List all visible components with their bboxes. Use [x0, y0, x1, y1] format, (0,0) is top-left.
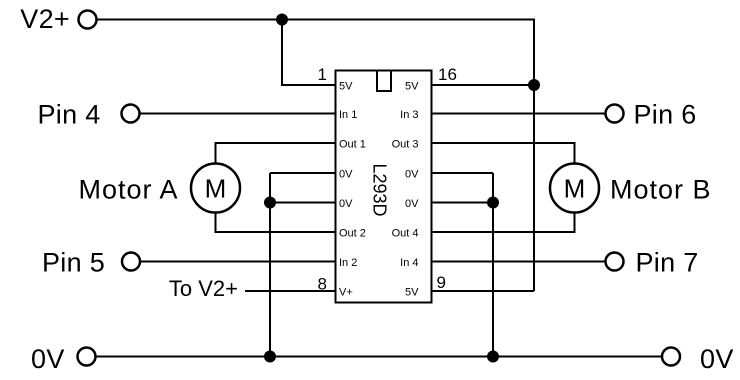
- svg-text:To V2+: To V2+: [169, 276, 238, 301]
- wire right 0V lower to vertical: [431, 202, 493, 204]
- wire Out 1 to Motor A top: [216, 143, 337, 165]
- junction right 0V: [487, 197, 499, 209]
- wire left 0V upper to vertical: [270, 172, 336, 174]
- terminal Pin 7: [606, 253, 624, 271]
- motor M-A: [191, 164, 240, 213]
- wire 0V bottom rail: [96, 356, 662, 358]
- terminal Pin 6: [606, 105, 624, 123]
- svg-text:5V: 5V: [405, 287, 419, 299]
- svg-text:5V: 5V: [405, 81, 419, 93]
- svg-text:9: 9: [437, 273, 446, 292]
- svg-text:Out 2: Out 2: [339, 228, 366, 240]
- terminal 0V left: [78, 348, 96, 366]
- svg-text:0V: 0V: [405, 198, 419, 210]
- svg-text:In 1: In 1: [339, 109, 357, 121]
- terminal Pin 4: [122, 105, 140, 123]
- svg-text:16: 16: [438, 65, 457, 84]
- svg-text:Out 4: Out 4: [392, 228, 419, 240]
- wire right 0V upper to vertical: [431, 172, 493, 174]
- svg-text:Out 1: Out 1: [339, 139, 366, 151]
- svg-text:M: M: [205, 174, 227, 204]
- svg-text:8: 8: [318, 275, 327, 294]
- svg-text:Pin 4: Pin 4: [38, 100, 101, 130]
- svg-text:Pin 5: Pin 5: [42, 248, 105, 278]
- svg-text:0V: 0V: [700, 344, 734, 374]
- wire Pin 4 to In 1: [140, 113, 336, 115]
- wire Motor B bottom to Out 4: [431, 212, 575, 233]
- wire left 0V lower to vertical: [270, 202, 336, 204]
- svg-text:Pin 7: Pin 7: [636, 248, 699, 278]
- wire To V2+ to V+ pin 8: [245, 290, 336, 292]
- svg-text:5V: 5V: [339, 81, 353, 93]
- svg-text:0V: 0V: [339, 169, 353, 181]
- svg-text:In 4: In 4: [400, 257, 418, 269]
- terminal Pin 5: [122, 253, 140, 271]
- wire pin 9 (5V) to rail: [431, 290, 534, 292]
- svg-text:Pin 6: Pin 6: [634, 100, 697, 130]
- junction left 0V: [264, 197, 276, 209]
- IC notch: [377, 71, 391, 92]
- junction pin16/rail: [528, 79, 540, 91]
- svg-text:0V: 0V: [31, 344, 65, 374]
- IC U1 L293D body: [336, 71, 432, 303]
- wire pin 16 (5V) to rail: [431, 84, 534, 86]
- terminal V2+: [79, 11, 97, 29]
- svg-text:1: 1: [318, 65, 327, 84]
- wire left 0V vertical: [269, 173, 271, 357]
- wire Pin 5 to In 2: [141, 261, 337, 263]
- wire rail down right side: [533, 19, 535, 292]
- svg-text:M: M: [564, 174, 586, 204]
- wire In 4 to Pin 7: [431, 261, 606, 263]
- wire Motor A bottom to Out 2: [216, 212, 337, 233]
- wire rail to pin 1 (5V): [282, 20, 336, 86]
- svg-text:Motor A: Motor A: [78, 175, 178, 205]
- svg-text:0V: 0V: [339, 198, 353, 210]
- svg-text:L293D: L293D: [370, 163, 390, 216]
- junction bottom rail right: [487, 351, 499, 363]
- wire V2+ top rail: [98, 19, 535, 21]
- svg-text:Motor B: Motor B: [610, 175, 712, 205]
- wire Out 3 to Motor B top: [431, 143, 575, 165]
- terminal 0V right: [662, 348, 680, 366]
- svg-text:V2+: V2+: [20, 4, 70, 34]
- svg-text:In 2: In 2: [339, 257, 357, 269]
- svg-text:V+: V+: [339, 287, 353, 299]
- wire right 0V vertical: [492, 173, 494, 357]
- svg-text:In 3: In 3: [400, 109, 418, 121]
- junction bottom rail left: [264, 351, 276, 363]
- junction on top rail: [276, 14, 288, 26]
- svg-text:0V: 0V: [405, 169, 419, 181]
- wire In 3 to Pin 6: [431, 113, 606, 115]
- svg-text:Out 3: Out 3: [392, 139, 419, 151]
- motor M-B: [550, 164, 599, 213]
